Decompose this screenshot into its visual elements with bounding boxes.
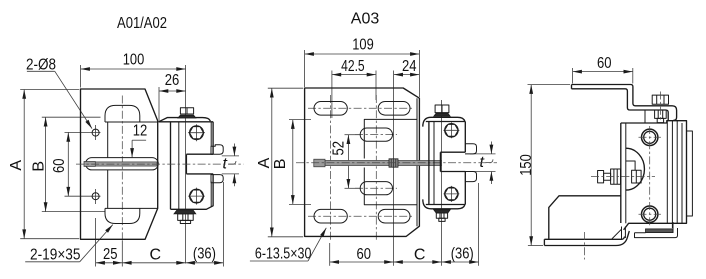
svg-text:26: 26	[165, 72, 180, 89]
svg-text:60: 60	[597, 55, 612, 72]
svg-text:A03: A03	[351, 11, 380, 28]
svg-text:12: 12	[133, 122, 148, 139]
svg-text:B: B	[272, 159, 289, 170]
svg-text:(36): (36)	[193, 246, 216, 263]
svg-text:25: 25	[103, 246, 118, 263]
svg-text:B: B	[30, 161, 47, 172]
svg-text:C: C	[150, 246, 162, 263]
svg-text:(36): (36)	[451, 246, 474, 263]
svg-text:60: 60	[356, 246, 371, 263]
svg-text:52: 52	[331, 141, 348, 156]
svg-text:24: 24	[402, 58, 417, 75]
svg-text:C: C	[414, 246, 426, 263]
svg-text:A01/A02: A01/A02	[117, 15, 167, 32]
svg-text:t: t	[480, 154, 485, 171]
svg-text:6-13.5×30: 6-13.5×30	[255, 245, 312, 262]
svg-text:60: 60	[51, 158, 68, 173]
svg-text:109: 109	[352, 36, 374, 53]
svg-text:100: 100	[123, 52, 145, 69]
svg-text:A: A	[256, 157, 273, 168]
svg-text:A: A	[8, 160, 25, 171]
svg-text:150: 150	[518, 154, 535, 176]
svg-text:2-19×35: 2-19×35	[30, 247, 81, 264]
svg-text:42.5: 42.5	[341, 58, 365, 75]
